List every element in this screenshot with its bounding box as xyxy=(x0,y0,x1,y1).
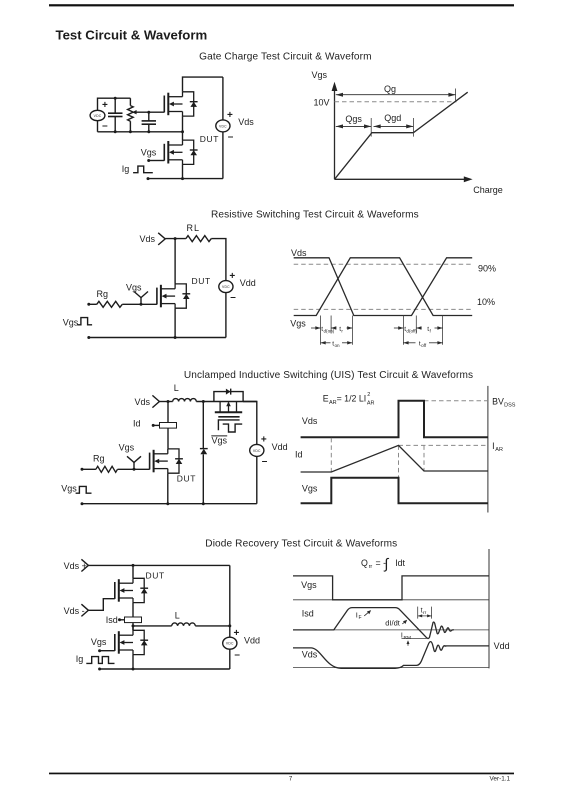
svg-text:Vgs: Vgs xyxy=(91,637,107,647)
voltage source V2 (Vds supply) xyxy=(216,120,230,132)
svg-text:VDC: VDC xyxy=(219,124,227,128)
svg-text:VDC: VDC xyxy=(226,642,234,646)
svg-text:BV: BV xyxy=(492,396,504,406)
node: gate input terminal xyxy=(87,303,90,306)
wire Q2 gate lead xyxy=(149,160,165,162)
wire V4 bottom to bottom rail xyxy=(256,456,258,503)
svg-text:d(on): d(on) xyxy=(324,328,335,333)
wire right rail upper xyxy=(229,565,231,637)
label Vgs-bar (inverted gate drive) xyxy=(211,436,227,446)
svg-text:Vgs: Vgs xyxy=(212,436,228,446)
Q5 gate lead bracket xyxy=(218,420,239,430)
wire Q7 gate lead xyxy=(100,650,115,652)
Isd zero reference line xyxy=(293,629,489,631)
node: Q3 source junction xyxy=(174,336,177,339)
transistor Q4 (DUT MOSFET) xyxy=(150,449,183,473)
timing tick t3 xyxy=(351,316,353,345)
node: Q2 source junction xyxy=(181,177,184,180)
footer rule xyxy=(49,773,514,775)
svg-text:7: 7 xyxy=(289,777,293,783)
right axis line xyxy=(488,549,490,668)
wire bottom rail circuit 3 xyxy=(82,503,257,505)
IRM level line xyxy=(402,637,429,639)
svg-text:Vgs: Vgs xyxy=(312,70,328,80)
svg-text:L: L xyxy=(174,383,179,393)
wire Q7 source to bottom rail xyxy=(132,655,134,669)
td(on) outside arrow xyxy=(311,327,321,329)
wire Q3 drain up to top rail xyxy=(174,239,176,284)
formula EAR = 1/2 L IAR^2 xyxy=(323,392,375,407)
Vds waveform trace xyxy=(294,258,473,316)
voltage source V5 (Vdd supply) xyxy=(223,637,237,649)
voltage source V4 (Vdd supply) xyxy=(250,444,264,456)
svg-text:+: + xyxy=(227,110,233,121)
dashed 10V level line xyxy=(335,101,457,103)
wire V3 bottom to bottom rail xyxy=(225,293,227,338)
svg-text:Qgd: Qgd xyxy=(384,113,401,123)
Vgs gate probe symbol xyxy=(127,456,141,462)
node: Q6 drain junction xyxy=(132,564,135,567)
current sensor box on source xyxy=(125,617,142,623)
Qgs dimension arrows xyxy=(336,125,371,127)
node: right rail junction xyxy=(228,624,231,627)
label IAR xyxy=(492,441,503,453)
plateau end tick xyxy=(412,118,414,137)
td(off) outside arrow xyxy=(394,327,404,329)
node: C2 top junction xyxy=(147,111,150,114)
svg-text:d(off): d(off) xyxy=(406,328,417,333)
svg-text:I: I xyxy=(356,610,358,619)
svg-text:= 1/2 LI: = 1/2 LI xyxy=(337,394,367,404)
x axis arrowhead xyxy=(464,176,473,182)
svg-text:Gate Charge Test Circuit & Wav: Gate Charge Test Circuit & Waveform xyxy=(199,52,372,63)
tick at Qg end xyxy=(455,89,457,101)
wire sensor to Q4 drain xyxy=(167,428,169,449)
capacitor C1 bottom lead xyxy=(114,117,116,132)
svg-text:r: r xyxy=(341,328,343,333)
wire V1 bottom lead xyxy=(97,121,99,132)
Vgs input pulse symbol xyxy=(76,486,92,493)
svg-text:+: + xyxy=(102,100,108,111)
Vgs gate probe symbol xyxy=(134,292,148,298)
wire Q7 drain to mid node xyxy=(132,626,134,630)
svg-text:VDC: VDC xyxy=(222,285,230,289)
potentiometer R1 bottom lead xyxy=(129,121,131,132)
wire probe to drain node xyxy=(159,401,172,403)
node dots on bottom rail xyxy=(114,130,184,133)
wire bottom rail of gate-drive block xyxy=(98,131,183,133)
Ig double pulse symbol xyxy=(86,657,114,664)
wire input to Rg xyxy=(89,303,97,305)
svg-text:RL: RL xyxy=(187,223,201,233)
svg-text:DUT: DUT xyxy=(200,134,219,144)
svg-text:E: E xyxy=(323,394,329,404)
Vds waveform trace (with ringing up to Vdd) xyxy=(293,642,446,669)
dashed vertical at avalanche start xyxy=(330,438,332,472)
capacitor C2 top lead xyxy=(148,112,150,121)
dashed vertical at peak xyxy=(398,445,400,477)
node: bottom terminal dot xyxy=(98,668,101,671)
Q6 gate elbow wire to Vds- probe xyxy=(88,599,114,611)
node: clamp diode junction xyxy=(202,400,205,403)
Vgs waveform trace xyxy=(294,258,473,316)
Q5 body diode loop xyxy=(214,392,243,402)
label IF with arrow xyxy=(356,610,371,621)
wire Isd probe lead xyxy=(120,619,125,621)
Vgs waveform trace (gate pulse, active low) xyxy=(293,576,489,600)
node: bottom-left terminal xyxy=(81,502,84,505)
svg-text:Vgs: Vgs xyxy=(119,442,135,452)
transistor Q7 (driver MOSFET) xyxy=(115,630,148,654)
svg-text:Qg: Qg xyxy=(384,84,396,94)
wire Q4 source to bottom rail xyxy=(167,473,169,504)
tf dimension arrows xyxy=(416,326,421,329)
diode D1 (blocking diode) xyxy=(200,449,208,455)
svg-text:RM: RM xyxy=(404,635,411,641)
timing tick t6 xyxy=(442,316,444,345)
node: probe junction on gate wire xyxy=(133,468,136,471)
svg-text:Vds -: Vds - xyxy=(64,606,85,616)
svg-text:Vgs: Vgs xyxy=(126,282,142,292)
wire Q1 drain to top rail xyxy=(183,77,223,92)
Vgs zero reference line xyxy=(293,599,489,601)
y axis xyxy=(334,88,336,180)
potentiometer R1 xyxy=(128,106,134,122)
capacitor C2 xyxy=(142,121,156,124)
wire Q1 source down to mid node xyxy=(182,116,184,132)
svg-text:AR: AR xyxy=(367,401,375,407)
svg-text:Vds: Vds xyxy=(134,397,150,407)
node: drain top junction xyxy=(167,400,170,403)
svg-text:DUT: DUT xyxy=(192,276,211,286)
svg-text:DUT: DUT xyxy=(146,571,165,581)
svg-text:Isd: Isd xyxy=(106,615,118,625)
wire drain node to sensor xyxy=(167,402,169,423)
capacitor C1 top lead xyxy=(114,98,116,113)
wire clamp diode branch lower xyxy=(202,454,204,503)
svg-text:Ig: Ig xyxy=(76,654,84,664)
node: gate terminal dot xyxy=(147,159,150,162)
Q5 body diode D2 xyxy=(226,389,231,395)
wire inductor to right rail xyxy=(195,625,230,627)
label dI/dt with arrow xyxy=(385,618,407,627)
current sensor box on drain xyxy=(160,423,177,429)
right axis line xyxy=(487,386,489,513)
Vgs waveform trace (gate pulse) xyxy=(301,478,488,504)
wire sensor to mid node xyxy=(132,623,134,631)
svg-text:Vds: Vds xyxy=(302,649,318,659)
y axis arrowhead xyxy=(332,82,338,91)
svg-text:Vds: Vds xyxy=(139,234,155,244)
transistor Q5 (clamp MOSFET, horizontal) xyxy=(215,402,242,417)
svg-text:Vgs: Vgs xyxy=(290,319,306,329)
svg-text:Q: Q xyxy=(361,558,368,568)
top border rule xyxy=(49,4,514,6)
svg-text:Vds: Vds xyxy=(302,416,318,426)
Vds zero reference line xyxy=(293,667,489,669)
svg-text:F: F xyxy=(359,615,362,621)
wire Q6 source down to sensor xyxy=(132,603,134,617)
voltage source V1 (VDC gate supply) xyxy=(90,110,105,120)
wire bottom rail circuit 1 xyxy=(148,178,223,180)
svg-text:DSS: DSS xyxy=(504,402,516,408)
node: Q4 source junction xyxy=(166,502,169,505)
dashed BVDSS level xyxy=(424,400,488,402)
toff dimension arrows xyxy=(403,342,415,344)
wire right rail lower xyxy=(229,649,231,669)
svg-text:–: – xyxy=(230,292,236,303)
wire Rg to Q4 gate xyxy=(118,468,150,470)
svg-text:Vgs: Vgs xyxy=(302,484,318,494)
timing tick t1 xyxy=(320,316,322,345)
wire wiper to gate of Q1 xyxy=(136,111,164,113)
node: probe junction on gate wire xyxy=(140,303,143,306)
wire V1 top lead xyxy=(98,98,131,110)
svg-text:Ig: Ig xyxy=(122,164,130,174)
Qg dimension arrows xyxy=(336,94,456,96)
svg-text:dI/dt: dI/dt xyxy=(385,618,401,627)
svg-text:Vds: Vds xyxy=(291,248,307,258)
transistor Q3 (DUT MOSFET) xyxy=(157,284,190,308)
Vgs input pulse symbol xyxy=(77,318,92,325)
Vds- probe symbol xyxy=(81,604,88,616)
plateau start ticks xyxy=(370,118,372,137)
svg-text:Diode Recovery Test Circuit &: Diode Recovery Test Circuit & Waveforms xyxy=(205,538,397,549)
wire clamp FET to right rail xyxy=(243,402,257,445)
svg-text:+: + xyxy=(261,434,267,445)
wire input to Rg xyxy=(82,468,96,470)
formula Qrr = -integral Idt xyxy=(361,557,406,573)
wire mid rail to inductor xyxy=(133,625,172,627)
svg-text:AR: AR xyxy=(329,400,337,406)
label IRM with up arrow xyxy=(401,633,411,646)
dashed 90% level xyxy=(294,263,472,265)
node: Q7 source junction xyxy=(132,668,135,671)
svg-text:Rg: Rg xyxy=(93,454,105,464)
wire Q2 drain to mid node xyxy=(182,132,184,140)
svg-text:rr: rr xyxy=(369,564,373,570)
svg-text:Vgs: Vgs xyxy=(141,148,157,158)
svg-text:Id: Id xyxy=(295,450,303,460)
node: clamp branch junction xyxy=(202,502,205,505)
dashed 10% level xyxy=(294,308,472,310)
resistor Rg xyxy=(97,301,123,307)
capacitor C2 bottom lead xyxy=(148,124,150,132)
svg-text:10%: 10% xyxy=(477,297,495,307)
node: C1 top junction xyxy=(114,97,117,100)
node: mid rail junction xyxy=(132,624,135,627)
inductor L1 xyxy=(173,399,197,402)
wire right rail bottom (V2 to bottom rail) xyxy=(222,132,224,179)
svg-text:+: + xyxy=(233,628,239,639)
svg-text:Resistive Switching Test Circu: Resistive Switching Test Circuit & Wavef… xyxy=(211,209,419,220)
svg-text:Ver-1.1: Ver-1.1 xyxy=(490,775,511,782)
transistor Q1 (upper MOSFET) xyxy=(164,92,197,116)
Vds probe symbol xyxy=(152,395,159,407)
label BVDSS xyxy=(492,396,516,408)
transistor Q2 (DUT MOSFET) xyxy=(164,140,197,164)
svg-text:rr: rr xyxy=(423,610,427,616)
svg-text:VDC: VDC xyxy=(253,449,261,453)
svg-text:VDC: VDC xyxy=(94,114,102,118)
potentiometer R1 top lead xyxy=(129,98,131,105)
wire right rail top (V2 to top rail) xyxy=(222,77,224,120)
wire RL to right rail xyxy=(211,239,226,281)
wire Q6 drain to top rail xyxy=(132,565,134,578)
x axis xyxy=(335,178,466,180)
node: drain junction on top rail xyxy=(174,237,177,240)
svg-text:Charge: Charge xyxy=(473,185,503,195)
wire Id probe lead xyxy=(153,424,159,426)
trr label xyxy=(421,607,427,616)
svg-text:I: I xyxy=(492,441,494,451)
capacitor C1 xyxy=(108,113,123,116)
svg-text:Unclamped Inductive Switching: Unclamped Inductive Switching (UIS) Test… xyxy=(184,370,473,381)
wire top rail (probe to RL) xyxy=(165,238,186,240)
svg-text:∫: ∫ xyxy=(384,557,390,573)
Qgd dimension arrows xyxy=(374,125,414,127)
svg-text:Id: Id xyxy=(133,419,141,429)
resistor RL xyxy=(186,236,211,242)
wire clamp diode branch upper xyxy=(202,402,204,449)
svg-text:Vdd: Vdd xyxy=(272,442,288,452)
svg-text:Vdd: Vdd xyxy=(244,635,260,645)
svg-text:L: L xyxy=(175,611,180,621)
node: bottom-left terminal xyxy=(87,336,90,339)
wire Q2 source to bottom rail xyxy=(182,164,184,178)
Q5 gate drive notch pulse symbol xyxy=(223,424,243,432)
Isd probe dot xyxy=(118,618,121,621)
wire top rail circuit 4 xyxy=(88,564,229,566)
wire Rg to Q3 gate xyxy=(122,303,157,305)
node: gate terminal dot xyxy=(98,649,101,652)
timing tick t4 xyxy=(402,316,404,345)
svg-text:Vds: Vds xyxy=(238,117,254,127)
trr ticks xyxy=(417,607,419,619)
svg-text:Vdd: Vdd xyxy=(494,641,510,651)
svg-text:+: + xyxy=(229,271,235,282)
wire Q3 source down to bottom rail xyxy=(174,308,176,337)
timing tick t5 xyxy=(415,316,417,334)
wire inductor to clamp node xyxy=(196,401,256,403)
ton dimension arrows xyxy=(321,342,331,344)
timing tick t2 xyxy=(330,316,332,334)
svg-text:–: – xyxy=(234,649,240,660)
Vds settled Vdd level (thick) xyxy=(444,645,489,647)
node: gate input terminal xyxy=(81,468,84,471)
dashed IAR level xyxy=(399,444,488,446)
wire bottom rail circuit 2 xyxy=(89,337,226,339)
Id current probe dot xyxy=(152,424,155,427)
svg-text:Vgs: Vgs xyxy=(61,484,77,494)
svg-text:Isd: Isd xyxy=(302,608,314,618)
tr dimension arrows xyxy=(331,326,336,329)
svg-text:Vgs: Vgs xyxy=(63,318,79,328)
Id waveform trace (current ramp) xyxy=(301,445,488,472)
svg-text:–: – xyxy=(228,132,234,143)
svg-text:2: 2 xyxy=(367,392,370,398)
svg-text:Idt: Idt xyxy=(395,558,405,568)
resistor Rg xyxy=(96,466,118,472)
svg-text:DUT: DUT xyxy=(177,473,196,483)
svg-text:–: – xyxy=(102,121,108,132)
Vds probe symbol xyxy=(158,233,165,245)
inductor L2 xyxy=(172,623,196,626)
svg-text:90%: 90% xyxy=(478,263,496,273)
svg-text:off: off xyxy=(421,343,427,348)
transistor Q6 (DUT MOSFET, body diode under test) xyxy=(115,578,148,602)
Vds waveform trace (pulse to BVDSS) xyxy=(301,401,488,438)
dashed vertical at end of avalanche xyxy=(423,445,425,471)
svg-text:on: on xyxy=(335,343,341,348)
trr dimension arrows xyxy=(418,615,432,617)
svg-text:f: f xyxy=(430,328,432,333)
svg-text:–: – xyxy=(262,456,268,467)
node: bottom rail terminal dot xyxy=(147,177,150,180)
svg-text:Vgs: Vgs xyxy=(301,580,317,590)
voltage source V3 (Vdd supply) xyxy=(219,281,233,293)
wire bottom rail circuit 4 xyxy=(100,668,230,670)
Vds+ probe symbol xyxy=(81,559,88,571)
svg-text:Qgs: Qgs xyxy=(345,114,362,124)
Ig pulse symbol xyxy=(133,166,153,173)
svg-text:Test Circuit & Waveform: Test Circuit & Waveform xyxy=(56,28,208,43)
Vgs gate-charge curve xyxy=(335,92,468,179)
Isd waveform trace (diode current with reverse recovery) xyxy=(293,608,454,639)
svg-text:10V: 10V xyxy=(313,97,329,107)
svg-text:Vdd: Vdd xyxy=(240,278,256,288)
svg-text:Rg: Rg xyxy=(97,289,109,299)
potentiometer R1 wiper arrow xyxy=(132,110,137,114)
svg-text:AR: AR xyxy=(495,447,503,453)
